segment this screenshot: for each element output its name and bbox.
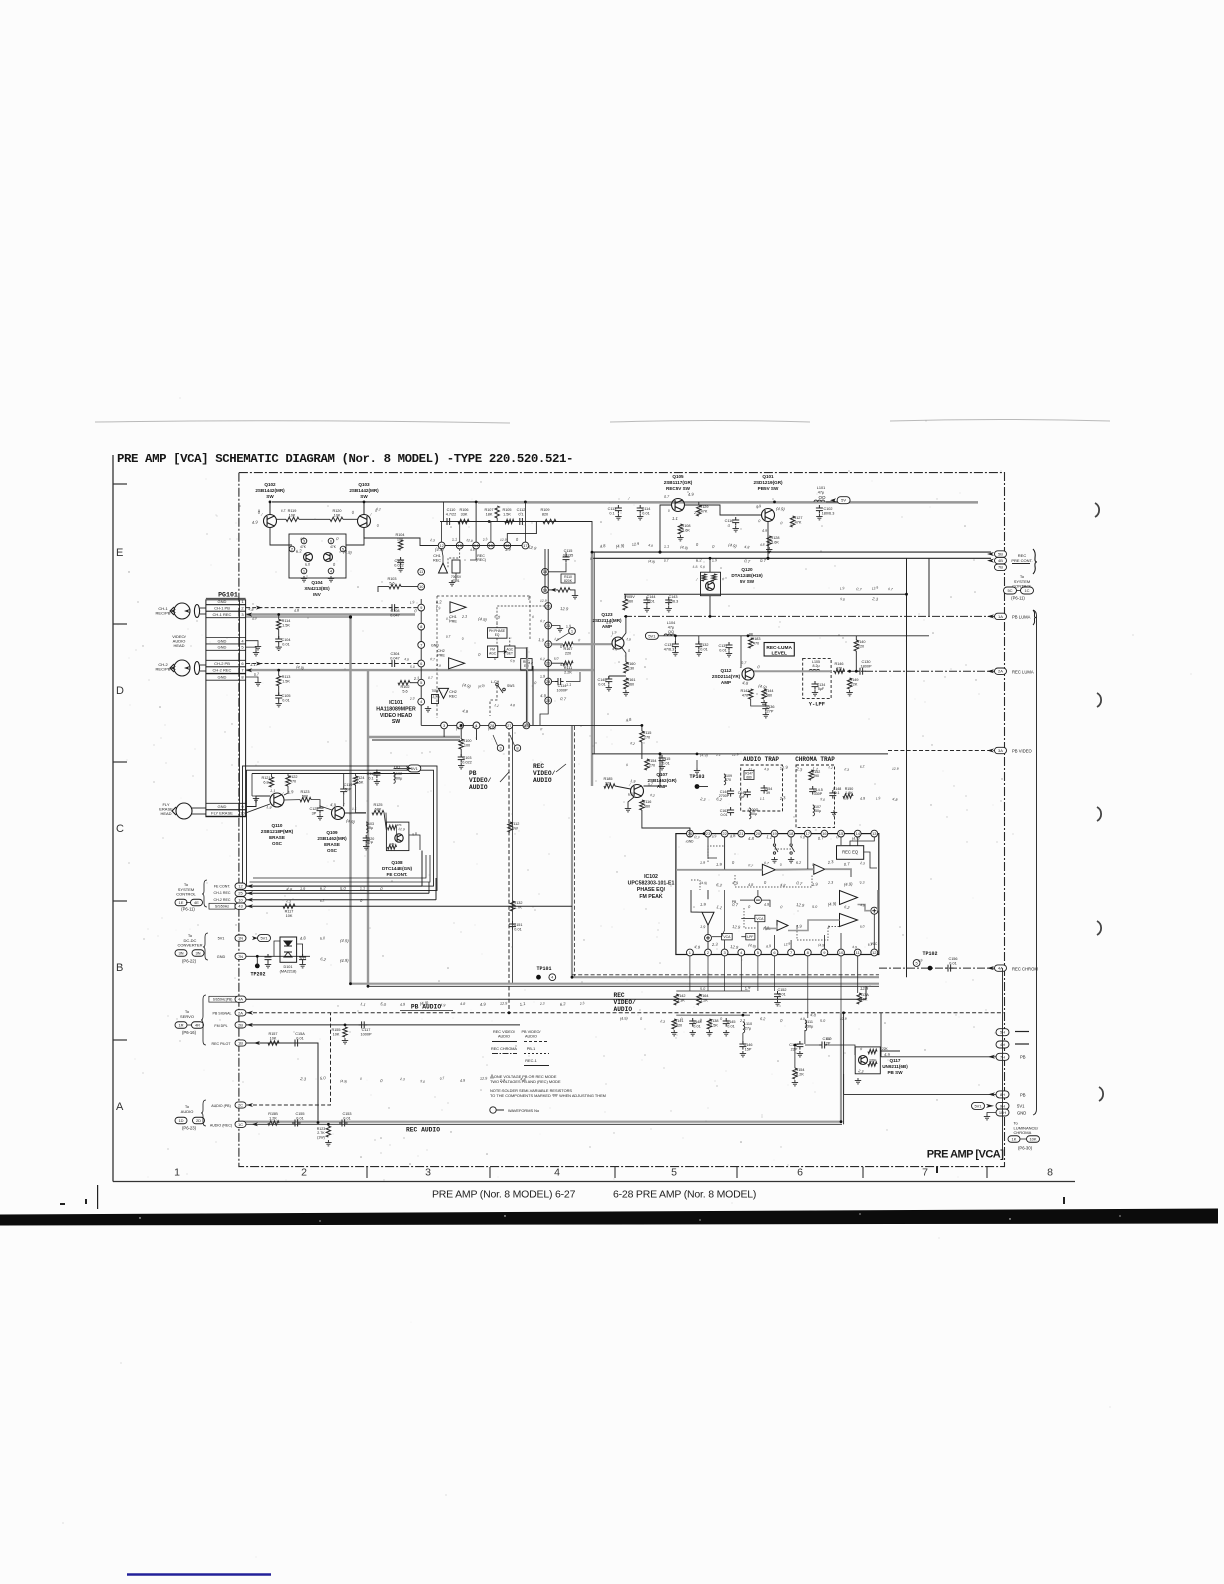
wire sc up x429 xyxy=(428,882,430,893)
svg-text:4.9: 4.9 xyxy=(252,519,259,525)
page edge shadow line (scan artifact) xyxy=(95,420,1110,424)
wire sw3 dashed drop xyxy=(490,686,497,716)
box audio trap dashed xyxy=(741,765,783,811)
capacitor C102 xyxy=(816,505,823,514)
wire R115 top xyxy=(641,725,643,731)
svg-text:4.8: 4.8 xyxy=(748,836,755,841)
wire R109 right xyxy=(556,522,592,553)
wire gray pin22 to Q123 xyxy=(552,643,563,645)
wire minus feed xyxy=(740,899,754,901)
arrow pb signal xyxy=(247,1011,254,1015)
svg-text:330P: 330P xyxy=(814,792,823,796)
wire ic102 pin8 long drop xyxy=(807,956,809,1018)
annotation mark 3 xyxy=(757,505,760,510)
svg-text:R122: R122 xyxy=(288,775,297,779)
scan speckle noise xyxy=(62,398,1191,1558)
svg-text:0.7: 0.7 xyxy=(254,672,261,677)
svg-text:560: 560 xyxy=(627,599,633,603)
wire rail gray overlay xyxy=(478,502,978,504)
label R105 1.5K xyxy=(502,508,511,516)
svg-text:4.9: 4.9 xyxy=(852,945,857,949)
wire dotted rec path xyxy=(744,908,756,928)
net 5V1 oval dcdc xyxy=(258,935,271,942)
svg-text:17: 17 xyxy=(806,831,811,836)
svg-text:560: 560 xyxy=(302,794,308,798)
svg-text:0: 0 xyxy=(626,763,628,767)
svg-text:5V1: 5V1 xyxy=(260,936,268,941)
amp ic102 d1 xyxy=(840,891,858,905)
svg-text:C118: C118 xyxy=(367,772,376,776)
svg-text:(4.9): (4.9) xyxy=(488,726,497,731)
punch hole mark 2 xyxy=(1097,693,1101,707)
junction dot 22 xyxy=(256,955,259,958)
column tick x615 xyxy=(614,1167,616,1178)
box 705 ohm xyxy=(432,695,439,704)
svg-text:12.9: 12.9 xyxy=(466,538,473,543)
svg-text:0.047: 0.047 xyxy=(390,656,400,660)
svg-text:47K: 47K xyxy=(795,520,802,524)
ground R123b xyxy=(325,1140,331,1146)
svg-text:4.8: 4.8 xyxy=(748,883,754,887)
svg-text:Q103: Q103 xyxy=(358,482,370,487)
svg-text:2C: 2C xyxy=(238,1103,243,1108)
svg-text:0.01: 0.01 xyxy=(647,599,654,603)
svg-text:0.7: 0.7 xyxy=(430,657,435,662)
inductor L103 xyxy=(366,822,368,833)
svg-text:820K: 820K xyxy=(564,579,573,583)
svg-text:4.9: 4.9 xyxy=(400,1002,407,1007)
inductor L105 xyxy=(809,669,820,671)
label C104 0.01 xyxy=(281,638,290,646)
svg-text:PB SIGNAL: PB SIGNAL xyxy=(213,1012,232,1016)
resistor R146 xyxy=(835,669,845,673)
svg-text:2.3: 2.3 xyxy=(429,538,435,543)
label L110 27u xyxy=(744,1022,752,1030)
svg-text:CH2: CH2 xyxy=(437,649,445,653)
svg-text:R108: R108 xyxy=(681,524,690,528)
svg-text:FE CONT.: FE CONT. xyxy=(387,872,408,877)
label C119 39P xyxy=(344,783,353,791)
resistor R125 xyxy=(372,810,384,814)
annotation voltages Q102 xyxy=(258,508,261,513)
svg-text:6.2: 6.2 xyxy=(320,898,325,903)
svg-text:R185: R185 xyxy=(603,777,612,781)
wire pin3 drop xyxy=(724,940,726,949)
svg-text:12.9: 12.9 xyxy=(730,944,739,950)
wire c119 feed xyxy=(343,774,345,787)
wire c114 out xyxy=(566,672,580,682)
label SS50Hz pin xyxy=(215,905,229,909)
junction dot 19 xyxy=(317,1121,320,1124)
svg-text:6.2: 6.2 xyxy=(796,861,802,865)
label R157 10K xyxy=(268,1032,277,1040)
label AGC DET xyxy=(506,648,514,656)
transistor Q104a xyxy=(304,553,313,562)
svg-text:3P: 3P xyxy=(312,811,317,815)
svg-text:0.7: 0.7 xyxy=(446,617,451,621)
arrow into 7H xyxy=(988,1055,995,1059)
connector PG101 row 10 FLY ERASE xyxy=(206,810,246,816)
label VCA 1 xyxy=(756,917,764,921)
net 5V1 oval erase xyxy=(408,765,421,772)
wire REC bus gray y977 xyxy=(572,976,879,978)
ground C14P xyxy=(797,1051,803,1057)
ground sw s1 xyxy=(771,857,777,863)
label R123 560 xyxy=(300,790,309,798)
svg-text:OO: OO xyxy=(818,495,826,500)
wire REC AUDIO thin xyxy=(241,1123,843,1125)
ground R155 xyxy=(342,1038,348,1044)
svg-text:R160: R160 xyxy=(626,662,635,666)
svg-text:R119: R119 xyxy=(288,509,297,513)
ground C146 xyxy=(740,1051,746,1057)
ground C118 xyxy=(374,779,380,785)
pin IC101-18 xyxy=(542,568,549,575)
wire IC101 bottom row xyxy=(421,724,642,726)
wire ic102 top gray entry xyxy=(689,828,691,837)
capacitor C117 xyxy=(359,1021,368,1028)
wire R114 to C104 xyxy=(278,629,280,639)
box VCA 2 xyxy=(722,933,733,940)
zone letter C xyxy=(116,823,124,835)
pin IC102-6 xyxy=(771,949,778,956)
ground C152 xyxy=(774,1000,780,1006)
svg-text:(4.9): (4.9) xyxy=(420,1000,430,1006)
bracket right signal group xyxy=(1033,610,1037,1115)
resistor R138 xyxy=(707,1019,711,1029)
label LPF xyxy=(747,935,753,939)
wire C132 drop xyxy=(698,636,700,644)
junction dot 7 xyxy=(767,557,770,560)
resistor Q108 47K a xyxy=(388,825,397,829)
capacitor C154 xyxy=(761,785,768,794)
summing node minus xyxy=(754,897,761,904)
svg-text:0: 0 xyxy=(376,523,380,528)
svg-text:R127: R127 xyxy=(793,516,802,520)
wire pin17 up xyxy=(524,502,526,542)
svg-text:22P: 22P xyxy=(791,1047,798,1051)
stray mark right of band xyxy=(936,1167,1065,1204)
ground PG101 pin8 xyxy=(255,680,261,686)
svg-text:0: 0 xyxy=(732,860,735,865)
svg-text:R114: R114 xyxy=(282,619,291,623)
ground C109 xyxy=(397,566,403,572)
wire agcdet up dash xyxy=(507,638,510,646)
head CH-2 symbol xyxy=(170,660,200,676)
svg-text:10: 10 xyxy=(839,950,844,955)
label REC CHROM xyxy=(1012,967,1038,972)
label P6-23 xyxy=(182,1126,197,1131)
svg-text:5.0: 5.0 xyxy=(844,796,849,801)
box LPF xyxy=(746,933,755,940)
svg-text:HEAD: HEAD xyxy=(173,643,184,648)
wire drop from rails x592 xyxy=(591,552,593,786)
annotation mark 2 xyxy=(628,496,631,501)
svg-text:GND: GND xyxy=(218,599,227,604)
svg-text:0.01: 0.01 xyxy=(296,1116,303,1120)
label C114 0.01 xyxy=(642,507,651,515)
label R132 2.7K xyxy=(513,901,522,909)
connector pin 10H xyxy=(996,1109,1009,1116)
label L111 330u xyxy=(805,1020,814,1028)
connector PG101 row 8 GND xyxy=(206,674,246,680)
waveform mark 3 xyxy=(497,745,503,751)
resistor R113 xyxy=(277,676,281,686)
wire ic102 pin drop x741.3 xyxy=(740,956,742,991)
svg-text:0: 0 xyxy=(351,509,355,515)
svg-text:FLY ERASE: FLY ERASE xyxy=(211,811,233,816)
svg-text:0: 0 xyxy=(720,1017,723,1021)
label L109 47u xyxy=(724,774,732,782)
svg-text:43: 43 xyxy=(238,904,243,909)
capacitor dcdc a xyxy=(265,954,272,963)
svg-text:2.3: 2.3 xyxy=(461,614,468,619)
svg-text:GND: GND xyxy=(686,840,694,844)
svg-text:23: 23 xyxy=(706,831,711,836)
svg-text:0.7: 0.7 xyxy=(856,587,863,592)
svg-text:1.9: 1.9 xyxy=(538,637,545,643)
legend line dashed pb1 xyxy=(524,1053,549,1055)
svg-text:4.8: 4.8 xyxy=(693,565,698,569)
svg-text:180/6.3: 180/6.3 xyxy=(822,511,835,515)
svg-text:3: 3 xyxy=(425,1167,431,1179)
label FM DPL pin xyxy=(214,1024,227,1028)
wire pin21 stub xyxy=(552,625,560,628)
IC102 outline xyxy=(676,834,879,955)
svg-text:6.2: 6.2 xyxy=(559,1001,566,1007)
wire Q101 emitter to rail xyxy=(767,522,769,559)
svg-text:C115: C115 xyxy=(662,757,671,761)
capacitor C145c xyxy=(723,1018,730,1027)
wire CH-1 REC sc up xyxy=(428,890,430,893)
ground R144 xyxy=(761,700,767,706)
transistor Q103 xyxy=(358,515,371,528)
svg-text:12.9: 12.9 xyxy=(783,942,790,947)
wire 7H feed xyxy=(881,1056,996,1058)
connector pin 43 SS xyxy=(235,903,246,909)
svg-text:4.9: 4.9 xyxy=(480,1001,487,1007)
svg-text:750μ: 750μ xyxy=(813,809,821,813)
resistor R167 xyxy=(563,642,573,646)
ground Q104 pin1 xyxy=(301,576,307,582)
label FLY ERASE HEAD xyxy=(159,802,173,816)
wire erase top rail xyxy=(252,773,420,775)
svg-text:REC AUDIO: REC AUDIO xyxy=(406,1127,440,1134)
label C156 0.01 xyxy=(948,957,957,965)
inductor L110 xyxy=(749,808,751,819)
wire ic102 pin drop x724.6 xyxy=(724,956,726,991)
svg-text:DTC144E(GN): DTC144E(GN) xyxy=(382,866,413,871)
svg-text:4.8: 4.8 xyxy=(892,797,899,802)
head CH-2 arrows xyxy=(170,666,190,670)
svg-text:Q123: Q123 xyxy=(601,612,613,617)
label L101 47u xyxy=(817,486,825,494)
arrow sc line y886.1 xyxy=(247,884,254,888)
svg-text:22K: 22K xyxy=(882,1047,889,1051)
svg-text:2SB1218P(MR): 2SB1218P(MR) xyxy=(261,829,294,834)
ground below ic102 x709.4 xyxy=(706,1030,712,1036)
svg-text:5.0: 5.0 xyxy=(860,924,865,929)
connector pin 1C2 xyxy=(1021,587,1034,594)
svg-text:AUDIO: AUDIO xyxy=(614,1006,633,1013)
sheet border left xyxy=(112,455,114,1182)
connector pin 1B servo xyxy=(235,1040,246,1046)
svg-text:12.9: 12.9 xyxy=(631,542,640,547)
pin IC101-5 xyxy=(418,679,425,686)
connector PG101 row 1 GND xyxy=(206,598,246,604)
svg-text:CHROMA TRAP: CHROMA TRAP xyxy=(795,756,835,763)
svg-text:4.9: 4.9 xyxy=(755,504,762,509)
wire CH-2 PB dashed xyxy=(246,663,421,665)
svg-text:6.8: 6.8 xyxy=(263,780,268,784)
label R100 100 xyxy=(462,739,471,747)
svg-text:1.5K: 1.5K xyxy=(503,512,511,516)
resistor R150 xyxy=(843,794,853,798)
svg-text:5.0: 5.0 xyxy=(820,1019,826,1023)
junction dot 24 xyxy=(641,724,644,727)
svg-text:1R: 1R xyxy=(178,1023,183,1028)
label C155 0.01 xyxy=(295,1112,304,1120)
resistor R122 xyxy=(286,776,290,786)
svg-text:5: 5 xyxy=(671,1167,677,1179)
svg-text:PB5V SW: PB5V SW xyxy=(758,486,779,491)
svg-text:2SD1219(GR): 2SD1219(GR) xyxy=(753,480,783,485)
svg-text:R146: R146 xyxy=(834,662,843,666)
svg-text:2SB1117(GR): 2SB1117(GR) xyxy=(664,480,693,485)
capacitor C148b xyxy=(689,1018,696,1027)
svg-text:1A: 1A xyxy=(998,614,1003,619)
svg-text:0.7: 0.7 xyxy=(732,902,739,907)
svg-text:0: 0 xyxy=(780,905,784,909)
ground dcdc a xyxy=(265,962,271,968)
label C103 0.022 xyxy=(462,756,472,764)
junction dot 33 xyxy=(488,520,491,523)
svg-text:1C: 1C xyxy=(1024,588,1029,593)
label R121 6.8 xyxy=(261,776,270,784)
legend waveform text xyxy=(508,1108,539,1113)
svg-text:R116: R116 xyxy=(643,800,652,804)
svg-text:0.01: 0.01 xyxy=(343,1116,350,1120)
resistor R142 xyxy=(674,994,678,1005)
wire REC PILOT run xyxy=(241,1043,319,1123)
svg-text:UPC582303-101-E1: UPC582303-101-E1 xyxy=(628,881,675,887)
svg-text:5V1: 5V1 xyxy=(974,1103,982,1108)
svg-text:2A: 2A xyxy=(998,669,1003,674)
pin IC102-2 xyxy=(705,949,712,956)
resistor R143 xyxy=(749,689,753,699)
svg-text:S/S50Hz(PB): S/S50Hz(PB) xyxy=(213,998,233,1002)
connector pin 2B servo xyxy=(235,1022,246,1028)
svg-text:(4.9): (4.9) xyxy=(478,616,488,622)
svg-text:0: 0 xyxy=(527,596,531,600)
svg-text:VIDEO/: VIDEO/ xyxy=(533,770,556,777)
svg-text:5.0: 5.0 xyxy=(800,835,805,840)
capacitor C150 xyxy=(819,1042,828,1049)
svg-text:OSC: OSC xyxy=(327,848,338,853)
label R106 33K xyxy=(459,508,468,516)
amp ic102 b xyxy=(814,864,825,874)
svg-text:C116: C116 xyxy=(725,519,734,523)
pin IC101-19 xyxy=(542,587,549,594)
blue pen line bottom xyxy=(127,1573,271,1575)
svg-text:5.0: 5.0 xyxy=(420,1079,426,1084)
svg-text:18K: 18K xyxy=(486,512,493,516)
svg-text:REC EQ: REC EQ xyxy=(842,850,859,855)
svg-text:0: 0 xyxy=(699,1017,703,1023)
junction dot 26 xyxy=(508,1011,511,1014)
label P6-11 right xyxy=(1011,596,1025,601)
legend REC-1 xyxy=(525,1059,536,1063)
label R117 10K xyxy=(285,910,294,918)
svg-text:12.9: 12.9 xyxy=(796,902,805,908)
svg-text:68K: 68K xyxy=(375,807,382,811)
svg-text:0: 0 xyxy=(333,562,337,567)
svg-text:OO: OO xyxy=(394,765,401,770)
ground C144 xyxy=(644,606,650,612)
svg-text:C156: C156 xyxy=(948,957,957,961)
junction rail b xyxy=(767,557,770,560)
wire AUDIO PB dashed run xyxy=(241,1013,331,1105)
wire c150 row xyxy=(805,1044,822,1046)
svg-text:2.3: 2.3 xyxy=(711,941,719,947)
wire PB AUDIO dashed xyxy=(241,1012,1004,1014)
svg-text:820: 820 xyxy=(676,1023,682,1027)
svg-text:REC/PB: REC/PB xyxy=(156,611,171,616)
svg-text:4.8: 4.8 xyxy=(294,608,301,613)
svg-text:8: 8 xyxy=(1047,1167,1053,1179)
wire rails to PB LUMA x929 xyxy=(928,558,930,616)
svg-text:REC CHROM: REC CHROM xyxy=(1012,967,1038,972)
svg-text:6.2: 6.2 xyxy=(826,1037,831,1041)
label R102 5.6 xyxy=(400,685,409,693)
resistor R117 xyxy=(283,904,295,908)
svg-text:5.6: 5.6 xyxy=(402,689,407,693)
connector pin 10 CH2 xyxy=(235,897,246,903)
label To SYSTEM CONTROL right xyxy=(1012,574,1032,589)
svg-text:2.3: 2.3 xyxy=(826,859,834,865)
svg-text:39: 39 xyxy=(766,791,770,795)
annotation mark 5 xyxy=(611,633,614,638)
amp ic102 d2 xyxy=(840,914,858,927)
resistor R140 xyxy=(854,640,858,651)
pin IC102-5 xyxy=(755,949,762,956)
capacitor C14A xyxy=(744,789,751,798)
label L104 47u xyxy=(667,621,675,634)
connector oval 3N b xyxy=(192,950,204,957)
ground PG101 pin4 xyxy=(255,644,261,650)
label C102 180/6.3 xyxy=(822,507,835,515)
svg-text:Q101: Q101 xyxy=(762,474,774,479)
label R111 2.2K xyxy=(564,666,573,674)
wire pin20 left dash xyxy=(497,606,545,623)
amp CH1 PRE xyxy=(450,602,466,613)
svg-text:CH1: CH1 xyxy=(433,554,441,558)
stray mark left of band xyxy=(60,1185,98,1209)
label P6-11 left xyxy=(181,907,195,912)
resistor R157 xyxy=(268,1041,279,1045)
label To SERVO xyxy=(180,1009,194,1019)
arrow audio pb xyxy=(247,1103,254,1107)
net 5V1 oval q123 xyxy=(645,632,658,639)
label P6-22 xyxy=(182,959,197,964)
ground Q104 pin4 xyxy=(328,576,334,582)
legend line dashdot xyxy=(492,1053,517,1055)
label AUDIO REC pin xyxy=(210,1123,232,1127)
box SW1 relay xyxy=(452,560,460,573)
wire R114 top xyxy=(278,615,280,620)
svg-text:CHROMA: CHROMA xyxy=(1014,1130,1032,1135)
amp CH2 PRE xyxy=(449,658,465,669)
